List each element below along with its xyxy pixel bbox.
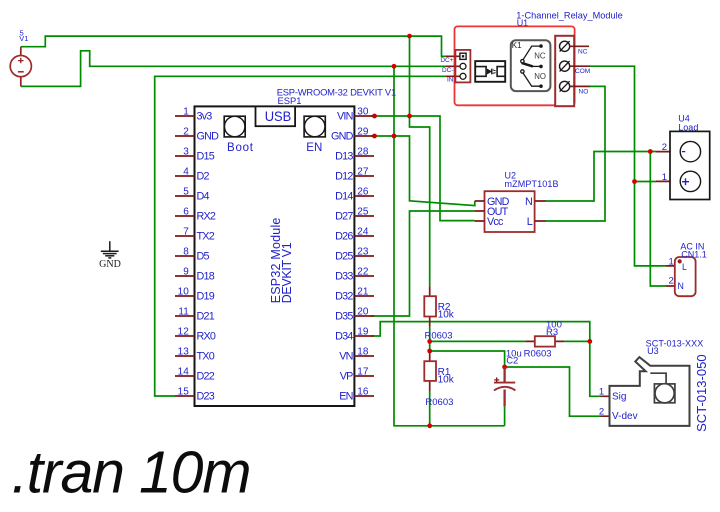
ESP32 rotated label <box>269 218 294 304</box>
svg-text:D25: D25 <box>335 251 353 263</box>
svg-text:7: 7 <box>183 227 189 238</box>
relay output terminal block <box>555 36 574 106</box>
wire 5V branch to ESP32 VIN <box>409 36 411 116</box>
load U4 <box>656 114 710 200</box>
svg-text:26: 26 <box>357 187 369 198</box>
svg-text:D26: D26 <box>335 231 353 243</box>
svg-text:Boot: Boot <box>227 142 254 154</box>
svg-text:D4: D4 <box>197 191 210 203</box>
svg-text:D21: D21 <box>197 311 215 323</box>
svg-text:20: 20 <box>357 307 369 318</box>
svg-text:C2: C2 <box>506 355 518 366</box>
svg-text:17: 17 <box>357 367 369 378</box>
wire R2 bottom to R1 top node <box>429 327 431 351</box>
svg-text:10k: 10k <box>438 309 455 320</box>
relay DC+ DC- IN pin stubs <box>446 56 460 76</box>
svg-text:11: 11 <box>178 307 189 318</box>
svg-text:U3: U3 <box>647 346 659 356</box>
svg-text:D34: D34 <box>335 331 353 343</box>
ESP32 right pin names <box>331 111 354 403</box>
U2 pin labels <box>487 196 533 228</box>
svg-text:D15: D15 <box>197 151 215 163</box>
svg-text:Vcc: Vcc <box>487 216 504 228</box>
svg-text:VP: VP <box>340 371 353 383</box>
resistor R3 <box>524 320 565 360</box>
wire ESP32 GND pin29 to U2 GND <box>371 136 475 206</box>
wire C2 top to U3 V-dev <box>505 367 601 416</box>
svg-text:2: 2 <box>662 142 667 153</box>
svg-text:10k: 10k <box>438 374 455 385</box>
svg-text:12: 12 <box>178 327 190 338</box>
wire relay IN to ESP32 D23 <box>155 76 446 396</box>
svg-text:18: 18 <box>357 347 369 358</box>
svg-text:V-dev: V-dev <box>612 411 638 422</box>
svg-text:EN: EN <box>339 391 352 403</box>
svg-text:2: 2 <box>669 276 674 287</box>
svg-text:VN: VN <box>339 351 352 363</box>
svg-text:19: 19 <box>357 327 369 338</box>
svg-text:TX0: TX0 <box>197 351 215 363</box>
svg-text:2: 2 <box>183 127 189 138</box>
wire R1 bottom to GND rail <box>429 391 431 426</box>
svg-text:NC: NC <box>534 52 546 61</box>
ground symbol <box>101 241 119 258</box>
ESP32 title <box>277 86 397 106</box>
wire R3 right to Sig vertical <box>564 340 590 342</box>
wire 5V: V1 plus to relay DC+ <box>21 36 446 56</box>
wire bias node to C2 top <box>430 351 505 367</box>
svg-text:2: 2 <box>599 407 604 418</box>
svg-text:SCT-013-050: SCT-013-050 <box>694 354 709 432</box>
svg-text:IN: IN <box>447 77 454 84</box>
svg-text:28: 28 <box>357 147 369 158</box>
capacitor C2 <box>494 348 522 406</box>
svg-text:RX0: RX0 <box>197 331 216 343</box>
svg-text:NO: NO <box>579 89 589 96</box>
ESP32 right pin numbers <box>357 107 369 398</box>
svg-text:DC+: DC+ <box>440 57 453 64</box>
svg-text:27: 27 <box>357 167 369 178</box>
ESP32 left pin stubs 1-15 <box>175 116 195 396</box>
wire Load pin2 node to AC N <box>650 152 665 287</box>
wire U2 OUT to ESP32 D35 <box>371 211 475 316</box>
svg-text:D23: D23 <box>197 391 215 403</box>
wire bias node to R3 left <box>430 340 526 342</box>
svg-text:1: 1 <box>183 107 189 118</box>
svg-text:14: 14 <box>178 367 190 378</box>
svg-text:D19: D19 <box>197 291 215 303</box>
ground label GND <box>99 259 121 270</box>
svg-text:R3: R3 <box>546 327 558 338</box>
svg-text:K1: K1 <box>512 41 522 50</box>
wire GND vertical to bottom rail <box>394 66 505 426</box>
svg-text:R0603: R0603 <box>425 330 453 341</box>
svg-text:R0603: R0603 <box>425 397 453 408</box>
svg-text:3: 3 <box>183 147 189 158</box>
svg-text:L: L <box>527 216 533 228</box>
current transformer U3 SCT-013 <box>599 339 709 432</box>
spice directive .tran 10m <box>12 440 252 506</box>
relay module U1 outline <box>455 26 575 105</box>
svg-text:DEVKIT V1: DEVKIT V1 <box>280 242 294 303</box>
resistor R1 <box>424 351 454 408</box>
ESP32 Boot button <box>224 116 254 154</box>
svg-text:GND: GND <box>99 259 121 270</box>
svg-text:L: L <box>682 262 687 272</box>
relay input connector <box>455 50 470 83</box>
svg-text:9: 9 <box>183 267 189 278</box>
relay NC COM NO pin stubs <box>570 46 591 86</box>
svg-text:13: 13 <box>178 347 190 358</box>
relay K1 <box>511 40 551 91</box>
wire U2 N to Load pin2 <box>546 152 656 202</box>
svg-text:V1: V1 <box>19 34 28 43</box>
U2 mZMPT101B body <box>485 191 535 232</box>
svg-text:RX2: RX2 <box>197 211 216 223</box>
optocoupler <box>475 61 505 82</box>
relay output pin labels <box>575 49 590 96</box>
svg-text:Sig: Sig <box>612 391 626 402</box>
svg-text:Load: Load <box>678 123 698 133</box>
svg-text:D22: D22 <box>197 371 215 383</box>
resistor R2 <box>424 286 455 341</box>
svg-text:21: 21 <box>357 287 369 298</box>
svg-text:6: 6 <box>183 207 189 218</box>
voltage source V1 <box>10 28 31 86</box>
svg-text:30: 30 <box>357 107 369 118</box>
svg-text:1: 1 <box>669 256 674 267</box>
svg-text:VIN: VIN <box>337 111 353 123</box>
svg-text:D35: D35 <box>335 311 353 323</box>
svg-text:3v3: 3v3 <box>197 111 213 123</box>
svg-text:EN: EN <box>306 142 322 154</box>
svg-text:R0603: R0603 <box>524 348 552 359</box>
ESP32 USB connector <box>256 106 296 126</box>
svg-text:TX2: TX2 <box>197 231 215 243</box>
ESP32 module ESP1 body <box>195 106 355 406</box>
svg-text:N: N <box>678 281 684 291</box>
ESP32 left pin names <box>197 111 220 403</box>
ESP32 EN button <box>304 116 325 154</box>
svg-text:22: 22 <box>357 267 369 278</box>
wire relay COM to Load pin1 and AC L <box>590 66 665 266</box>
svg-text:23: 23 <box>357 247 369 258</box>
svg-text:D14: D14 <box>335 191 353 203</box>
svg-text:24: 24 <box>357 227 369 238</box>
svg-text:D13: D13 <box>335 151 353 163</box>
ESP32 right pin stubs 16-30 <box>354 116 374 396</box>
wire GND: V1 minus to relay DC- <box>21 51 446 87</box>
svg-text:COM: COM <box>575 68 590 75</box>
U2 pin stubs <box>475 201 546 221</box>
svg-text:8: 8 <box>183 247 189 258</box>
svg-text:4: 4 <box>183 167 189 178</box>
wire C2 bottom to GND rail <box>504 406 506 426</box>
svg-text:DC-: DC- <box>442 67 454 74</box>
svg-text:16: 16 <box>357 387 369 398</box>
wire ESP32 D34 to R3 right / U3 Sig <box>371 322 601 397</box>
svg-text:D2: D2 <box>197 171 210 183</box>
svg-text:D33: D33 <box>335 271 353 283</box>
svg-text:D12: D12 <box>335 171 353 183</box>
svg-text:10: 10 <box>178 287 190 298</box>
svg-text:1: 1 <box>599 387 604 398</box>
svg-text:U1: U1 <box>517 18 529 28</box>
svg-text:1-Channel_Relay_Module: 1-Channel_Relay_Module <box>516 10 623 20</box>
ESP32 left pin numbers <box>178 107 190 398</box>
AC input connector CN1.1 <box>665 242 706 297</box>
svg-text:5: 5 <box>183 187 189 198</box>
wire VIN row to U2 Vcc <box>371 116 475 221</box>
svg-text:GND: GND <box>197 131 220 143</box>
svg-text:.tran 10m: .tran 10m <box>12 440 252 506</box>
svg-text:GND: GND <box>331 131 354 143</box>
svg-text:mZMPT101B: mZMPT101B <box>505 179 559 189</box>
svg-text:NO: NO <box>534 72 546 81</box>
relay input pin labels <box>440 57 453 84</box>
svg-text:D5: D5 <box>197 251 210 263</box>
svg-text:CN1.1: CN1.1 <box>681 250 707 260</box>
svg-text:N: N <box>525 196 532 208</box>
svg-text:NC: NC <box>578 49 588 56</box>
svg-text:D32: D32 <box>335 291 353 303</box>
wire 5V jog to R2 top <box>410 116 430 286</box>
svg-text:15: 15 <box>178 387 190 398</box>
svg-text:D18: D18 <box>197 271 215 283</box>
svg-text:29: 29 <box>357 127 369 138</box>
svg-text:USB: USB <box>265 108 292 124</box>
svg-text:1: 1 <box>662 172 667 183</box>
svg-text:D27: D27 <box>335 211 353 223</box>
relay module title <box>516 10 623 27</box>
U2 title <box>505 171 559 190</box>
svg-text:ESP1: ESP1 <box>278 95 302 106</box>
svg-text:25: 25 <box>357 207 369 218</box>
wire relay NO to U2 L <box>546 86 605 221</box>
